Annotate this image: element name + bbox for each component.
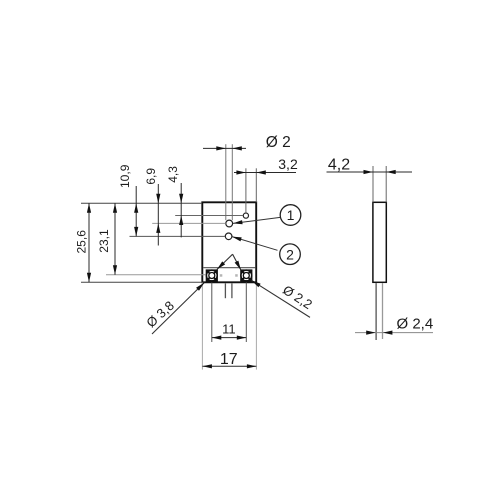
V leader left branch bbox=[217, 254, 233, 269]
cable lines bbox=[375, 283, 377, 340]
svg-text:3,2: 3,2 bbox=[278, 156, 298, 172]
11 dimension bbox=[212, 337, 247, 339]
svg-text:1: 1 bbox=[287, 207, 295, 223]
terminal pins bbox=[224, 283, 226, 298]
6,9 dimension bbox=[157, 184, 159, 246]
10,9 dimension bbox=[135, 186, 137, 236]
4,2 dimension bbox=[327, 171, 413, 173]
balloon 2 leader bbox=[232, 237, 278, 251]
4,3 dimension bbox=[180, 183, 182, 237]
side view body bbox=[373, 202, 386, 282]
25,6 dimension bbox=[88, 203, 90, 282]
svg-text:4,3: 4,3 bbox=[166, 166, 180, 183]
17 dimension bbox=[202, 365, 256, 367]
balloon 1 bbox=[280, 205, 301, 226]
dia 2 extension lines bbox=[225, 144, 227, 220]
hole-centre extension left bbox=[106, 274, 206, 276]
side view extension lines up bbox=[372, 166, 374, 202]
dia 2,4 dimension bbox=[355, 332, 433, 334]
hole A extension left bbox=[175, 215, 243, 217]
hole B extension left bbox=[152, 222, 226, 224]
svg-text:11: 11 bbox=[222, 321, 236, 336]
flange separation line bbox=[203, 267, 255, 269]
svg-text:25,6: 25,6 bbox=[75, 230, 89, 254]
svg-text:6,9: 6,9 bbox=[144, 168, 158, 185]
body top extension left bbox=[81, 202, 202, 204]
body edge extensions down bbox=[201, 283, 203, 370]
svg-text:10,9: 10,9 bbox=[118, 164, 132, 188]
svg-text:23,1: 23,1 bbox=[97, 229, 111, 253]
V leader right branch bbox=[233, 254, 241, 270]
dia 2,2 leader bbox=[252, 280, 311, 317]
small flange dots bbox=[220, 274, 223, 277]
right mounting hole bbox=[241, 270, 252, 281]
hole C (balloon 2) bbox=[225, 233, 232, 240]
svg-text:4,2: 4,2 bbox=[328, 157, 350, 174]
hole A extension line up bbox=[245, 168, 247, 213]
hole A (3,2 ref) bbox=[243, 213, 248, 218]
dia 3,8 leader bbox=[152, 283, 204, 334]
body bottom extension left bbox=[81, 281, 202, 283]
dia 2 dimension bbox=[203, 147, 246, 149]
svg-text:2: 2 bbox=[286, 246, 294, 262]
svg-text:Ø 2: Ø 2 bbox=[266, 134, 291, 151]
balloon 2 bbox=[280, 244, 301, 265]
sensor body front view outline bbox=[202, 202, 256, 282]
hole C extension left bbox=[130, 235, 226, 237]
svg-text:Ø 2,4: Ø 2,4 bbox=[397, 315, 434, 332]
3,2 dimension bbox=[234, 172, 296, 174]
23,1 dimension bbox=[114, 203, 116, 274]
right edge extension line up bbox=[255, 168, 257, 202]
left mounting hole bbox=[206, 270, 217, 281]
hole centre extensions down bbox=[211, 283, 213, 343]
hole B (balloon 1) bbox=[226, 220, 233, 227]
balloon 1 leader bbox=[233, 217, 280, 223]
svg-text:17: 17 bbox=[220, 351, 238, 368]
